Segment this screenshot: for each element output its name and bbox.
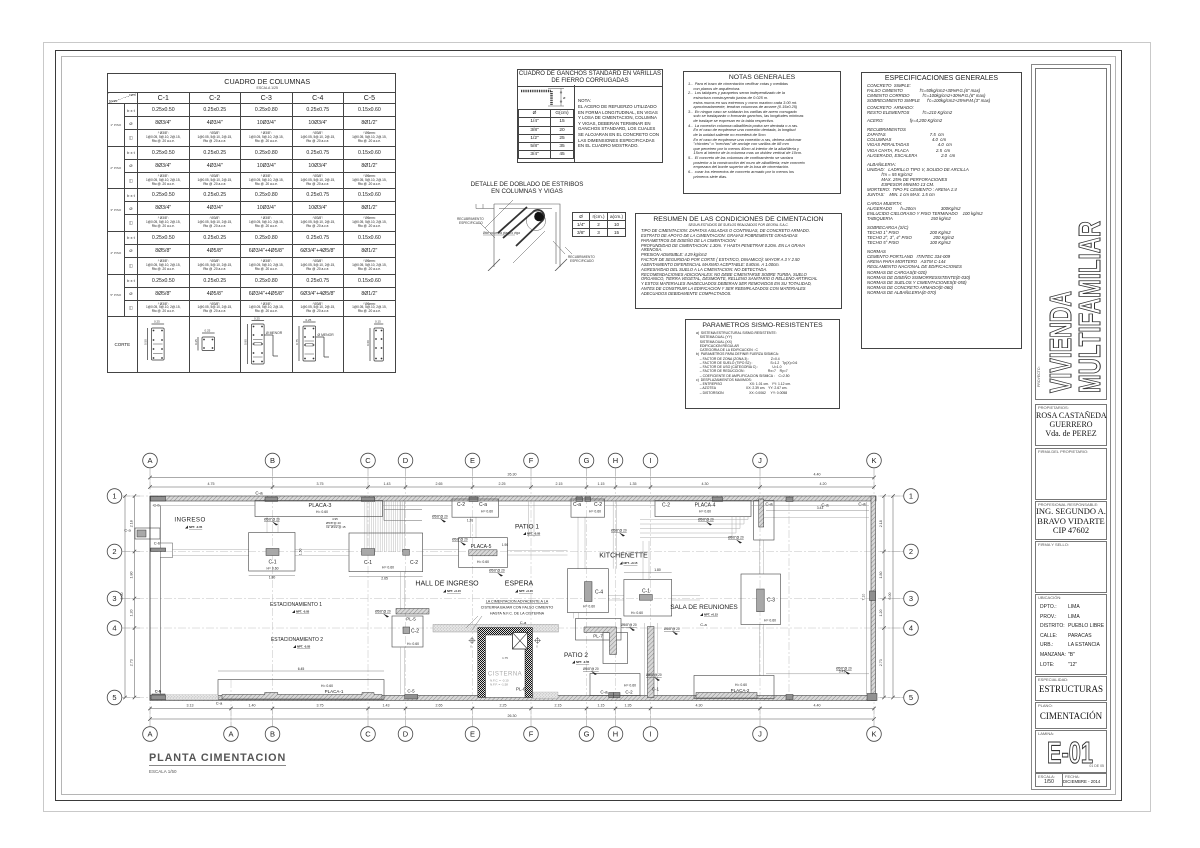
svg-text:C-4: C-4 [595, 590, 603, 596]
svg-text:1.20: 1.20 [130, 610, 134, 617]
svg-text:H= 0.60: H= 0.60 [481, 510, 493, 514]
svg-text:CISTERNA: CISTERNA [488, 672, 522, 678]
svg-text:C-2: C-2 [457, 502, 465, 508]
svg-text:G: G [584, 730, 590, 739]
svg-text:H= 0.60: H= 0.60 [583, 605, 595, 609]
svg-text:A: A [228, 730, 233, 739]
svg-text:ESPERA: ESPERA [505, 581, 534, 588]
svg-text:PL-5: PL-5 [406, 617, 416, 622]
svg-text:4.20: 4.20 [820, 482, 827, 486]
svg-text:1: 1 [112, 492, 116, 501]
svg-text:CISTERNA BAJAR CON FALSO CIMIE: CISTERNA BAJAR CON FALSO CIMIENTO [481, 606, 554, 610]
svg-text:NPT. -0.05: NPT. -0.05 [297, 645, 311, 649]
svg-text:1.40: 1.40 [249, 704, 256, 708]
svg-text:C-a: C-a [858, 502, 866, 507]
svg-text:Ø5/8"@ 20: Ø5/8"@ 20 [621, 623, 637, 627]
svg-text:26.30: 26.30 [508, 473, 517, 477]
svg-text:C-a: C-a [765, 502, 773, 507]
svg-text:INGRESO: INGRESO [174, 517, 205, 524]
svg-text:1.20: 1.20 [467, 519, 473, 523]
svg-text:2.25: 2.25 [500, 704, 507, 708]
svg-text:SALA DE REUNIONES: SALA DE REUNIONES [670, 604, 738, 611]
svg-text:26.30: 26.30 [508, 714, 517, 718]
svg-text:NPT. -0.05: NPT. -0.05 [576, 660, 590, 664]
svg-text:PLACA-3: PLACA-3 [309, 503, 332, 509]
svg-text:C-2: C-2 [594, 502, 602, 508]
svg-text:2.65: 2.65 [436, 482, 443, 486]
svg-text:C-2: C-2 [625, 690, 633, 695]
svg-text:J: J [758, 730, 762, 739]
svg-text:PLACA-2: PLACA-2 [731, 688, 750, 693]
svg-text:NPT. +0.15: NPT. +0.15 [704, 613, 718, 617]
svg-text:1.35: 1.35 [630, 482, 637, 486]
svg-text:PL-6: PL-6 [516, 687, 526, 692]
svg-text:H= 0.60: H= 0.60 [477, 560, 489, 564]
svg-text:H= 0.60: H= 0.60 [382, 566, 394, 570]
svg-text:C-a: C-a [821, 503, 829, 508]
svg-text:1.90: 1.90 [502, 543, 508, 547]
svg-text:6.45: 6.45 [298, 667, 305, 671]
svg-text:NPT. +0.15: NPT. +0.15 [519, 589, 533, 593]
svg-text:H= 0.60: H= 0.60 [407, 642, 419, 646]
svg-text:3.75: 3.75 [317, 482, 324, 486]
svg-text:C-1: C-1 [642, 589, 650, 595]
svg-text:C-b: C-b [154, 541, 161, 546]
svg-text:H= 0.60: H= 0.60 [321, 684, 333, 688]
svg-text:5: 5 [112, 693, 116, 702]
svg-text:B: B [270, 730, 275, 739]
svg-text:I: I [649, 730, 651, 739]
svg-text:2.65: 2.65 [436, 704, 443, 708]
svg-text:NPT. +0.15: NPT. +0.15 [447, 589, 461, 593]
svg-text:4: 4 [112, 624, 116, 633]
svg-text:Ø5/8"@ 20: Ø5/8"@ 20 [836, 667, 852, 671]
svg-text:I: I [649, 456, 651, 465]
svg-text:2.65: 2.65 [381, 577, 388, 581]
svg-text:C-a: C-a [573, 502, 581, 508]
svg-text:K: K [871, 456, 876, 465]
svg-text:Inf. Ø1/2 @ 15: Inf. Ø1/2 @ 15 [326, 525, 346, 529]
svg-text:Ø5/8"@ 20: Ø5/8"@ 20 [728, 536, 744, 540]
svg-text:2.73: 2.73 [130, 659, 134, 666]
svg-text:2.15: 2.15 [555, 704, 562, 708]
svg-text:C-b: C-b [153, 503, 160, 508]
svg-text:H= 0.60: H= 0.60 [624, 684, 636, 688]
svg-text:H= 0.60: H= 0.60 [735, 683, 747, 687]
svg-text:C-a: C-a [216, 701, 223, 706]
svg-text:E: E [470, 456, 475, 465]
svg-text:PLACA-4: PLACA-4 [695, 503, 716, 509]
svg-text:J: J [758, 456, 762, 465]
svg-text:Ø5/8"@ 20: Ø5/8"@ 20 [452, 538, 468, 542]
svg-text:1.43: 1.43 [383, 704, 390, 708]
svg-text:2.18: 2.18 [130, 520, 134, 527]
svg-text:C-a: C-a [520, 620, 527, 625]
svg-text:H: H [613, 456, 618, 465]
svg-text:5: 5 [909, 693, 913, 702]
svg-text:1.80: 1.80 [879, 572, 883, 579]
svg-text:C: C [365, 730, 371, 739]
svg-text:K: K [871, 730, 876, 739]
svg-text:1.80: 1.80 [654, 568, 661, 572]
svg-text:H= 0.60: H= 0.60 [316, 510, 328, 514]
svg-text:C-a: C-a [600, 690, 608, 695]
svg-text:2.15: 2.15 [556, 482, 563, 486]
svg-text:4: 4 [909, 624, 913, 633]
svg-text:H= 0.60: H= 0.60 [267, 567, 279, 571]
svg-text:X: X [470, 645, 472, 649]
svg-text:X: X [536, 645, 538, 649]
svg-text:ESTACIONAMIENTO 1: ESTACIONAMIENTO 1 [270, 602, 322, 608]
svg-text:C: C [365, 456, 371, 465]
svg-text:Ø5/8"@ 20: Ø5/8"@ 20 [489, 569, 505, 573]
svg-text:2: 2 [909, 547, 913, 556]
svg-text:H= 0.60: H= 0.60 [589, 510, 601, 514]
svg-text:Ø5/8"@ 20: Ø5/8"@ 20 [664, 627, 680, 631]
svg-text:2.73: 2.73 [879, 659, 883, 666]
svg-text:1: 1 [909, 492, 913, 501]
svg-text:KITCHENETTE: KITCHENETTE [599, 553, 648, 560]
svg-text:C-3: C-3 [767, 598, 775, 604]
svg-text:2.25: 2.25 [499, 482, 506, 486]
svg-text:E: E [470, 730, 475, 739]
svg-text:C-1: C-1 [652, 687, 660, 692]
svg-text:NPT. -0.05: NPT. -0.05 [527, 532, 541, 536]
svg-text:N.F.F. = -1.58: N.F.F. = -1.58 [490, 683, 508, 687]
svg-text:2.18: 2.18 [879, 520, 883, 527]
svg-text:Ø5/8"@ 20: Ø5/8"@ 20 [583, 667, 599, 671]
svg-text:7.10: 7.10 [862, 594, 866, 601]
svg-text:H= 0.60: H= 0.60 [699, 510, 711, 514]
svg-text:1.80: 1.80 [269, 576, 276, 580]
svg-text:A: A [147, 730, 152, 739]
svg-text:3: 3 [909, 594, 913, 603]
svg-text:Ø5/8"@ 20: Ø5/8"@ 20 [375, 610, 391, 614]
svg-text:PLACA-1: PLACA-1 [325, 689, 344, 694]
svg-text:C-b: C-b [155, 689, 162, 694]
svg-text:F: F [529, 730, 534, 739]
svg-text:1.50: 1.50 [299, 548, 303, 555]
svg-text:PATIO 1: PATIO 1 [515, 524, 539, 531]
svg-text:4.30: 4.30 [696, 704, 703, 708]
svg-text:1.15: 1.15 [598, 704, 605, 708]
svg-text:Ø5/8"@ 20: Ø5/8"@ 20 [646, 673, 662, 677]
svg-text:B: B [270, 456, 275, 465]
svg-text:4.40: 4.40 [814, 704, 821, 708]
svg-text:C-5: C-5 [407, 689, 415, 694]
svg-text:C-2: C-2 [411, 629, 419, 635]
svg-text:H= 0.60: H= 0.60 [631, 611, 643, 615]
svg-text:2: 2 [112, 547, 116, 556]
svg-text:1.75: 1.75 [502, 656, 508, 660]
svg-text:C-2: C-2 [662, 503, 670, 509]
svg-text:C-1: C-1 [268, 560, 276, 566]
svg-text:LA CIMENTACION ADYACENTE A LA: LA CIMENTACION ADYACENTE A LA [486, 600, 549, 604]
svg-text:4.75: 4.75 [208, 482, 215, 486]
svg-text:G: G [584, 456, 590, 465]
svg-text:1.43: 1.43 [384, 482, 391, 486]
svg-text:NPT. +0.15: NPT. +0.15 [624, 561, 638, 565]
svg-text:HASTA N.F.C. DE LA CISTERNA: HASTA N.F.C. DE LA CISTERNA [490, 612, 545, 616]
svg-text:3: 3 [112, 594, 116, 603]
svg-text:1.15: 1.15 [598, 482, 605, 486]
svg-text:PL-7: PL-7 [593, 634, 603, 639]
svg-text:C-a: C-a [700, 622, 707, 627]
svg-text:PATIO 2: PATIO 2 [564, 652, 588, 659]
svg-text:HALL DE INGRESO: HALL DE INGRESO [415, 581, 479, 588]
svg-text:3.13: 3.13 [187, 704, 194, 708]
svg-text:Ø5/8"@ 20: Ø5/8"@ 20 [698, 518, 714, 522]
svg-text:NPT. -0.05: NPT. -0.05 [296, 610, 310, 614]
svg-text:1.35: 1.35 [625, 704, 632, 708]
svg-text:H: H [613, 730, 618, 739]
svg-text:C-2: C-2 [410, 560, 418, 566]
svg-text:1.80: 1.80 [130, 572, 134, 579]
svg-text:3.75: 3.75 [317, 704, 324, 708]
svg-text:4.30: 4.30 [702, 482, 709, 486]
svg-text:C-a: C-a [124, 528, 131, 533]
svg-text:Ø5/8"@ 20: Ø5/8"@ 20 [611, 529, 627, 533]
svg-text:ESTACIONAMIENTO 2: ESTACIONAMIENTO 2 [271, 637, 323, 643]
svg-text:Ø5/8"@ 20: Ø5/8"@ 20 [432, 515, 448, 519]
svg-text:NPT. -0.05: NPT. -0.05 [189, 525, 203, 529]
svg-text:C-a: C-a [255, 491, 263, 496]
svg-text:C-a: C-a [479, 502, 487, 508]
svg-text:Ø5/8"@ 20: Ø5/8"@ 20 [264, 518, 280, 522]
svg-text:C-1: C-1 [364, 560, 372, 566]
svg-text:A: A [147, 456, 152, 465]
svg-text:H= 0.60: H= 0.60 [764, 619, 776, 623]
svg-text:4.40: 4.40 [814, 473, 821, 477]
svg-text:1.20: 1.20 [879, 610, 883, 617]
svg-text:PLACA-5: PLACA-5 [471, 544, 492, 550]
svg-text:D: D [403, 730, 409, 739]
svg-text:D: D [403, 456, 409, 465]
svg-text:F: F [529, 456, 534, 465]
